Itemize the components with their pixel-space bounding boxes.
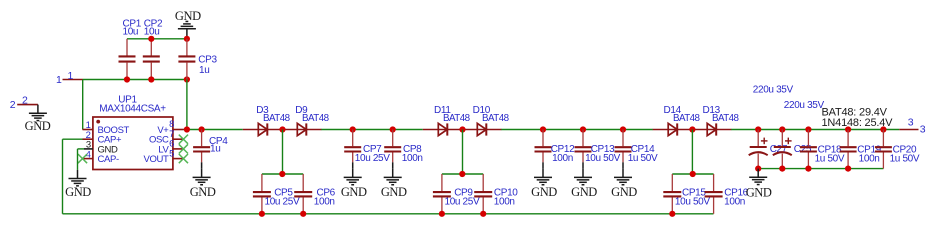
svg-text:BAT48: BAT48 bbox=[712, 113, 740, 124]
junction D14-D13 bbox=[689, 126, 695, 132]
port pin 1 bbox=[63, 79, 84, 81]
junction C27 top bbox=[755, 126, 761, 132]
svg-text:1u 50V: 1u 50V bbox=[815, 153, 845, 164]
pin 5 VOUT bbox=[173, 158, 183, 160]
svg-text:10u 25V: 10u 25V bbox=[444, 197, 479, 208]
port pin 2 bbox=[17, 104, 38, 106]
pin 6 LV bbox=[173, 148, 183, 150]
node 1 input rail bbox=[83, 79, 187, 81]
port pin 3 output bbox=[899, 129, 918, 131]
capacitor CP12 bbox=[542, 130, 544, 147]
capacitor C25 220u bbox=[781, 130, 783, 147]
svg-text:1u 50V: 1u 50V bbox=[628, 153, 658, 164]
svg-text:10u 50V: 10u 50V bbox=[675, 197, 710, 208]
svg-text:2: 2 bbox=[10, 99, 16, 111]
junction CP8 bbox=[390, 126, 396, 132]
ground CP7 bbox=[352, 169, 354, 178]
svg-text:GND: GND bbox=[341, 185, 367, 199]
svg-text:10u 50V: 10u 50V bbox=[585, 153, 620, 164]
pin 3 GND bbox=[84, 148, 93, 150]
svg-text:BAT48: BAT48 bbox=[263, 113, 291, 124]
capacitor CP15 bbox=[671, 174, 673, 191]
capacitor CP7 bbox=[352, 130, 354, 147]
junction D11-D10 bbox=[459, 126, 465, 132]
capacitor C27 220u bbox=[757, 130, 759, 147]
junction pair tap bbox=[459, 171, 465, 177]
svg-text:GND: GND bbox=[746, 185, 772, 199]
capacitor CP3 bbox=[186, 39, 188, 56]
svg-text:VOUT: VOUT bbox=[144, 154, 170, 165]
wire rail c bbox=[501, 129, 653, 131]
junction CP4 bbox=[199, 126, 205, 132]
svg-text:10u: 10u bbox=[123, 27, 139, 38]
junction CP1 node1 bbox=[124, 76, 130, 82]
svg-text:GND: GND bbox=[381, 185, 407, 199]
junction CP18 bottom bbox=[805, 166, 811, 172]
wire diode segment bbox=[423, 129, 502, 131]
svg-text:GND: GND bbox=[175, 9, 201, 23]
junction pair tap bbox=[690, 171, 696, 177]
capacitor CP20 bbox=[882, 130, 884, 147]
capacitor CP4 bbox=[201, 130, 203, 147]
junction CP2 node1 bbox=[148, 76, 154, 82]
ground pin 3 bbox=[77, 170, 79, 179]
wire tap down D11 bbox=[462, 130, 464, 175]
ground port 2 bbox=[37, 105, 39, 114]
capacitor CP13 bbox=[582, 130, 584, 147]
ground CP4 bbox=[201, 169, 203, 178]
svg-text:3: 3 bbox=[920, 124, 926, 136]
svg-text:BAT48: BAT48 bbox=[482, 113, 510, 124]
svg-text:1N4148: 25.4V: 1N4148: 25.4V bbox=[822, 117, 894, 129]
capacitor CP6 bbox=[302, 174, 304, 191]
svg-text:100n: 100n bbox=[402, 153, 423, 164]
junction C25 bottom bbox=[779, 166, 785, 172]
capacitor CP9 bbox=[441, 174, 443, 191]
svg-text:100n: 100n bbox=[724, 197, 745, 208]
pin 1 BOOST bbox=[83, 129, 93, 131]
wire node1 to BOOST bbox=[82, 80, 84, 130]
junction CP7 bbox=[350, 126, 356, 132]
no-connect pin 7 bbox=[179, 135, 188, 144]
pin 2 CAP+ bbox=[83, 138, 93, 140]
diode D14 BAT48 bbox=[668, 123, 677, 135]
junction pair tap bbox=[279, 171, 285, 177]
capacitor CP18 bbox=[807, 130, 809, 147]
ground CP8 bbox=[392, 169, 394, 178]
svg-text:100n: 100n bbox=[859, 153, 880, 164]
svg-text:3: 3 bbox=[908, 117, 914, 129]
capacitor CP2 bbox=[150, 39, 152, 56]
wire pair rail bbox=[672, 173, 713, 175]
diode D9 BAT48 bbox=[297, 123, 306, 135]
svg-text:C25: C25 bbox=[794, 144, 812, 155]
svg-text:220u 35V: 220u 35V bbox=[784, 100, 825, 111]
ground CP12 bbox=[542, 169, 544, 178]
svg-text:10u 25V: 10u 25V bbox=[264, 197, 299, 208]
capacitor CP1 bbox=[126, 39, 128, 56]
svg-text:220u 35V: 220u 35V bbox=[753, 85, 794, 96]
diode D11 BAT48 bbox=[438, 123, 447, 135]
junction CP20 top bbox=[880, 126, 886, 132]
pin 7 OSC bbox=[173, 138, 183, 140]
no-connect pin 5 bbox=[179, 154, 188, 163]
svg-text:CAP-: CAP- bbox=[98, 154, 119, 165]
junction CP9 bottom bbox=[439, 211, 445, 217]
svg-text:BAT48: BAT48 bbox=[443, 113, 471, 124]
svg-text:1: 1 bbox=[68, 70, 74, 82]
svg-text:10u 25V: 10u 25V bbox=[355, 153, 390, 164]
wire CP3 to V+ rail bbox=[186, 80, 188, 130]
junction D3-D9 bbox=[279, 126, 285, 132]
svg-text:GND: GND bbox=[531, 185, 557, 199]
wire bottom rail bbox=[63, 213, 714, 215]
diode D3 BAT48 bbox=[258, 123, 267, 135]
junction CP19 top bbox=[845, 126, 851, 132]
svg-text:1u 50V: 1u 50V bbox=[890, 153, 920, 164]
svg-text:GND: GND bbox=[65, 185, 91, 199]
svg-text:BAT48: BAT48 bbox=[302, 113, 330, 124]
diode D13 BAT48 bbox=[707, 123, 716, 135]
ground CP14 bbox=[622, 169, 624, 178]
svg-text:MAX1044CSA+: MAX1044CSA+ bbox=[99, 104, 166, 115]
svg-text:GND: GND bbox=[571, 185, 597, 199]
svg-text:100n: 100n bbox=[494, 197, 515, 208]
junction CP15 bottom bbox=[669, 211, 675, 217]
wire output bottom rail bbox=[758, 168, 883, 170]
junction C27 bottom bbox=[755, 166, 761, 172]
no-connect pin 6 bbox=[179, 144, 188, 153]
svg-text:2: 2 bbox=[22, 95, 28, 107]
junction CP19 bottom bbox=[845, 166, 851, 172]
op-amp UP1 body bbox=[93, 117, 173, 170]
svg-text:GND: GND bbox=[611, 185, 637, 199]
junction CP18 top bbox=[805, 126, 811, 132]
wire GND top rail bbox=[127, 38, 187, 40]
capacitor CP14 bbox=[622, 130, 624, 147]
svg-text:5: 5 bbox=[169, 148, 174, 159]
svg-text:100n: 100n bbox=[314, 197, 335, 208]
wire tap down D14 bbox=[691, 130, 693, 175]
junction CP3-V+ bbox=[184, 126, 190, 132]
junction CP10 bottom bbox=[480, 211, 486, 217]
junction CP13 bbox=[580, 126, 586, 132]
svg-text:GND: GND bbox=[25, 119, 51, 133]
capacitor CP16 bbox=[713, 174, 715, 191]
wire diode segment bbox=[653, 129, 732, 131]
diode D10 BAT48 bbox=[477, 123, 486, 135]
svg-text:1u: 1u bbox=[210, 144, 220, 155]
junction CP5 bottom bbox=[259, 211, 265, 217]
wire CAP+ down bbox=[63, 138, 83, 140]
wire rail d bbox=[731, 129, 899, 131]
junction CP14 bbox=[620, 126, 626, 132]
capacitor CP8 bbox=[392, 130, 394, 147]
wire pair rail bbox=[262, 173, 303, 175]
junction CP6 bottom bbox=[300, 211, 306, 217]
svg-text:GND: GND bbox=[190, 185, 216, 199]
pin 8 V+ bbox=[173, 129, 184, 131]
wire rail b bbox=[321, 129, 423, 131]
wire GND pin3 bbox=[78, 148, 85, 150]
ground CP13 bbox=[582, 169, 584, 178]
svg-text:1u: 1u bbox=[199, 65, 209, 76]
wire pair rail bbox=[442, 173, 483, 175]
wire V+ rail a bbox=[184, 129, 243, 131]
capacitor CP5 bbox=[261, 174, 263, 191]
junction GND stem bbox=[184, 36, 190, 42]
pin 4 CAP- bbox=[83, 158, 93, 160]
junction C25 top bbox=[779, 126, 785, 132]
ground output bbox=[757, 169, 759, 178]
wire tap down D3 bbox=[282, 130, 284, 175]
no-connect pin 4 bbox=[78, 154, 87, 163]
svg-text:100n: 100n bbox=[552, 153, 573, 164]
svg-text:BAT48: BAT48 bbox=[673, 113, 701, 124]
junction CP2 top bbox=[148, 36, 154, 42]
junction CP3 node1 bbox=[184, 76, 190, 82]
capacitor CP10 bbox=[482, 174, 484, 191]
capacitor CP19 bbox=[847, 130, 849, 147]
ground top bbox=[186, 29, 188, 39]
wire diode segment bbox=[243, 129, 321, 131]
svg-text:1: 1 bbox=[56, 74, 62, 86]
junction CP12 bbox=[540, 126, 546, 132]
